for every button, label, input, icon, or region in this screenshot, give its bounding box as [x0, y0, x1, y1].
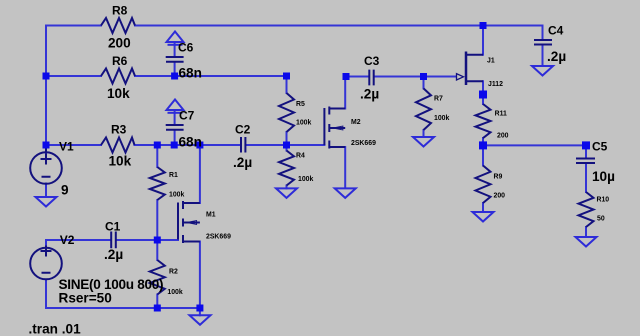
- svg-text:2SK669: 2SK669: [351, 140, 376, 147]
- svg-text:C3: C3: [364, 54, 380, 68]
- svg-text:50: 50: [597, 216, 605, 223]
- svg-text:68n: 68n: [179, 65, 202, 80]
- svg-text:R7: R7: [434, 96, 443, 103]
- svg-text:C2: C2: [235, 123, 251, 137]
- svg-text:R3: R3: [111, 123, 127, 137]
- svg-text:R10: R10: [597, 197, 610, 204]
- svg-text:68n: 68n: [179, 134, 202, 149]
- svg-text:C1: C1: [105, 220, 121, 234]
- svg-text:R9: R9: [494, 174, 503, 181]
- svg-text:J1: J1: [487, 58, 495, 65]
- svg-text:.2µ: .2µ: [547, 49, 566, 64]
- svg-text:R5: R5: [296, 101, 305, 108]
- svg-text:R4: R4: [296, 153, 305, 160]
- svg-text:2SK669: 2SK669: [206, 234, 231, 241]
- svg-text:.2µ: .2µ: [104, 247, 123, 262]
- svg-text:200: 200: [497, 133, 509, 140]
- svg-text:C6: C6: [178, 41, 194, 55]
- svg-text:100k: 100k: [298, 176, 313, 183]
- svg-text:C4: C4: [548, 23, 564, 37]
- svg-text:R11: R11: [495, 111, 507, 118]
- svg-text:.tran .01: .tran .01: [29, 322, 82, 336]
- svg-text:R6: R6: [112, 54, 128, 68]
- svg-text:9: 9: [61, 182, 69, 197]
- svg-text:10k: 10k: [107, 86, 130, 101]
- svg-text:100k: 100k: [296, 120, 311, 127]
- svg-text:10µ: 10µ: [592, 169, 615, 184]
- svg-text:R8: R8: [112, 4, 128, 18]
- svg-text:.2µ: .2µ: [360, 86, 379, 101]
- svg-text:100k: 100k: [169, 192, 184, 199]
- svg-text:M2: M2: [351, 119, 361, 126]
- svg-text:R2: R2: [169, 268, 178, 275]
- svg-text:200: 200: [108, 35, 131, 50]
- svg-text:100k: 100k: [434, 115, 449, 122]
- svg-text:V2: V2: [60, 233, 75, 247]
- svg-text:M1: M1: [206, 212, 216, 219]
- svg-text:200: 200: [494, 192, 506, 199]
- svg-text:V1: V1: [59, 139, 74, 153]
- svg-text:C5: C5: [592, 140, 608, 154]
- svg-text:J112: J112: [488, 81, 503, 88]
- svg-text:100k: 100k: [167, 289, 182, 296]
- svg-text:10k: 10k: [109, 153, 132, 168]
- svg-text:C7: C7: [179, 109, 195, 123]
- svg-text:.2µ: .2µ: [233, 155, 252, 170]
- svg-text:R1: R1: [169, 172, 178, 179]
- svg-text:Rser=50: Rser=50: [59, 291, 112, 306]
